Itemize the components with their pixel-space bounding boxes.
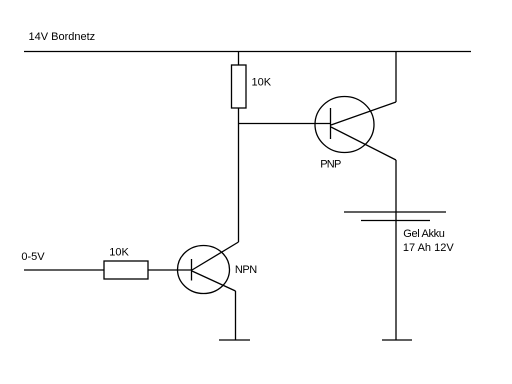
resistor R2 <box>104 261 148 279</box>
svg-text:0-5V: 0-5V <box>21 251 45 263</box>
resistor R1 <box>232 65 247 108</box>
wire R1 bottom to NPN collector node <box>238 108 240 242</box>
transistor Q1 PNP <box>315 97 396 161</box>
svg-text:10K: 10K <box>252 77 272 89</box>
wire input to R2 <box>24 269 104 271</box>
battery BT1 Gel Akku <box>344 212 446 221</box>
svg-text:17 Ah 12V: 17 Ah 12V <box>403 242 454 254</box>
wire battery minus to ground <box>395 221 397 341</box>
wire PNP emitter to rail <box>395 52 397 103</box>
wire node to PNP base <box>239 123 332 125</box>
wire R2 to NPN base <box>148 269 192 271</box>
ground NPN emitter <box>219 339 250 341</box>
svg-text:PNP: PNP <box>320 159 341 171</box>
svg-text:NPN: NPN <box>235 264 257 276</box>
wire PNP collector to battery plus <box>395 160 397 212</box>
svg-text:10K: 10K <box>109 247 129 259</box>
wire rail to R1 top <box>238 52 240 66</box>
wire 14V supply rail <box>24 51 471 53</box>
svg-text:Gel Akku: Gel Akku <box>403 228 444 240</box>
wire NPN emitter to ground <box>235 291 237 340</box>
transistor Q2 NPN <box>178 242 239 294</box>
ground battery <box>382 339 412 341</box>
svg-text:14V Bordnetz: 14V Bordnetz <box>29 31 96 43</box>
